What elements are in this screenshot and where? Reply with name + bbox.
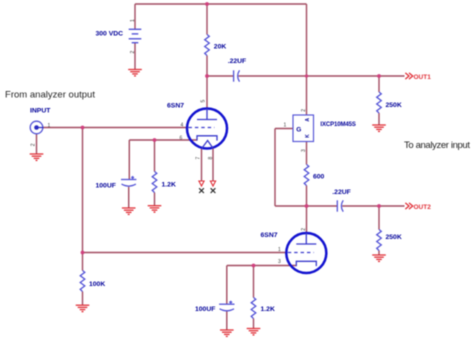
svg-text:2: 2	[301, 228, 307, 231]
ground 100UF 1	[122, 208, 136, 214]
wire OUT1 node to 250K	[378, 76, 380, 92]
svg-text:4: 4	[181, 123, 184, 129]
wire 100K to ground	[82, 292, 84, 306]
junction input	[81, 126, 85, 130]
svg-text:1.2K: 1.2K	[261, 306, 275, 313]
wire grid node down	[82, 128, 84, 253]
svg-text:1.2K: 1.2K	[162, 181, 176, 188]
wire V1 heater pin 7	[201, 148, 203, 181]
resistor R7 100K	[80, 271, 85, 292]
resistor R1 20K	[205, 35, 210, 56]
wire U1 K to 600	[306, 142, 308, 165]
wire V1 cathode	[129, 139, 197, 141]
wire C4 to ground	[226, 312, 228, 331]
wire input connector to ground	[36, 134, 38, 154]
wire 1.2K to ground 2	[253, 319, 255, 329]
wire C2 to OUT2	[342, 205, 404, 207]
connector INPUT	[30, 121, 43, 134]
svg-text:.22UF: .22UF	[228, 58, 247, 65]
svg-text:1: 1	[284, 122, 287, 128]
wire 20K to tube V1 plate	[206, 56, 208, 109]
wire node to 100K	[82, 253, 84, 271]
wire OUT2 node to 250K	[378, 206, 380, 230]
resistor R6 1.2K	[251, 298, 256, 319]
wire rail down to U1 anode	[306, 4, 308, 115]
ground 1.2K 1	[148, 206, 162, 212]
ground 1.2K 2	[247, 329, 261, 335]
svg-text:2: 2	[130, 51, 136, 54]
svg-text:8: 8	[208, 157, 214, 160]
wire cathode to C3	[128, 140, 130, 180]
junction crossing	[305, 74, 308, 77]
junction plate node	[205, 74, 209, 78]
svg-text:From analyzer output: From analyzer output	[5, 89, 95, 100]
wire to V2 grid	[83, 252, 288, 254]
ground 250K 1	[372, 125, 386, 131]
wire C3 to ground	[128, 187, 130, 208]
ground 100UF 2	[220, 330, 234, 336]
svg-text:1: 1	[130, 19, 136, 22]
svg-text:OUT1: OUT1	[414, 74, 432, 81]
svg-text:600: 600	[313, 173, 325, 180]
svg-text:3: 3	[301, 149, 307, 152]
ground battery	[128, 70, 142, 76]
no-connect pin7	[199, 181, 204, 193]
ground 250K 2	[372, 255, 386, 261]
svg-text:300 VDC: 300 VDC	[96, 31, 124, 38]
svg-text:K: K	[305, 134, 311, 138]
svg-text:1: 1	[278, 247, 281, 253]
svg-text:6SN7: 6SN7	[261, 232, 278, 239]
wire gate loop down	[274, 129, 276, 207]
wire gate loop to node	[275, 205, 307, 207]
svg-text:INPUT: INPUT	[30, 108, 51, 115]
resistor R5 1.2K	[152, 172, 157, 193]
svg-text:2: 2	[31, 143, 37, 146]
wire node to tube V2 plate	[306, 206, 308, 233]
svg-text:5: 5	[201, 100, 207, 103]
wire cathode to C4	[226, 266, 228, 305]
svg-text:OUT2: OUT2	[414, 204, 432, 211]
wire top rail B+	[135, 3, 307, 5]
resistor R2 250K	[377, 92, 382, 113]
svg-text:1: 1	[48, 123, 51, 129]
wire cathode to 1.2K	[154, 140, 156, 172]
capacitor C1 .22UF	[234, 70, 240, 81]
wire C1 to OUT1	[239, 75, 405, 77]
capacitor C2 .22UF	[337, 200, 343, 211]
svg-text:250K: 250K	[386, 234, 402, 241]
wire battery top	[134, 4, 136, 29]
resistor R4 250K	[377, 230, 382, 251]
wire V2 cathode	[227, 265, 296, 267]
wire plate node to C1	[207, 75, 234, 77]
wire node to C2	[307, 205, 338, 207]
wire 600 to node	[306, 186, 308, 207]
svg-text:6SN7: 6SN7	[167, 102, 184, 109]
junction 100K	[81, 251, 85, 255]
wire cathode to 1.2K 2	[253, 266, 255, 298]
svg-text:A: A	[305, 118, 311, 122]
junction cathode 1	[153, 138, 157, 142]
junction OUT2	[377, 204, 381, 208]
svg-text:250K: 250K	[386, 102, 402, 109]
svg-text:To analyzer input: To analyzer input	[404, 140, 470, 151]
triode V1 6SN7	[187, 109, 227, 149]
svg-text:G: G	[296, 127, 301, 134]
svg-text:100UF: 100UF	[96, 182, 116, 189]
svg-text:100K: 100K	[89, 281, 105, 288]
svg-text:100UF: 100UF	[195, 306, 215, 313]
svg-text:IXCP10M45S: IXCP10M45S	[320, 122, 356, 128]
triode V2 6SN7	[286, 233, 326, 273]
wire 250K to ground	[378, 113, 380, 125]
svg-text:20K: 20K	[214, 44, 227, 51]
port OUT2	[405, 203, 431, 211]
current regulator U1 IXCP10M45S	[293, 115, 314, 142]
ground input	[30, 154, 44, 160]
no-connect pin8	[210, 181, 215, 193]
wire U1 gate left	[275, 128, 293, 130]
svg-text:3: 3	[278, 259, 281, 265]
wire input to V1 grid	[43, 127, 188, 129]
svg-text:.22UF: .22UF	[332, 189, 351, 196]
wire V1 heater pin 8	[212, 148, 214, 181]
ground 100K	[76, 305, 90, 311]
battery BT1 300 VDC	[129, 29, 142, 42]
wire battery to ground	[134, 43, 136, 70]
port OUT1	[405, 73, 431, 81]
resistor R3 600	[304, 165, 309, 186]
capacitor C3 100UF	[121, 176, 136, 186]
capacitor C4 100UF	[219, 301, 234, 311]
junction rail/20K	[205, 2, 209, 6]
svg-text:6: 6	[180, 136, 183, 142]
wire 250K to ground	[378, 251, 380, 256]
wire 1.2K to ground	[154, 193, 156, 206]
wire rail to R 20K	[206, 4, 208, 35]
junction cathode 2	[252, 264, 256, 268]
junction OUT1	[377, 74, 381, 78]
junction node K	[305, 204, 309, 208]
svg-text:2: 2	[301, 109, 307, 112]
svg-text:7: 7	[195, 157, 201, 160]
